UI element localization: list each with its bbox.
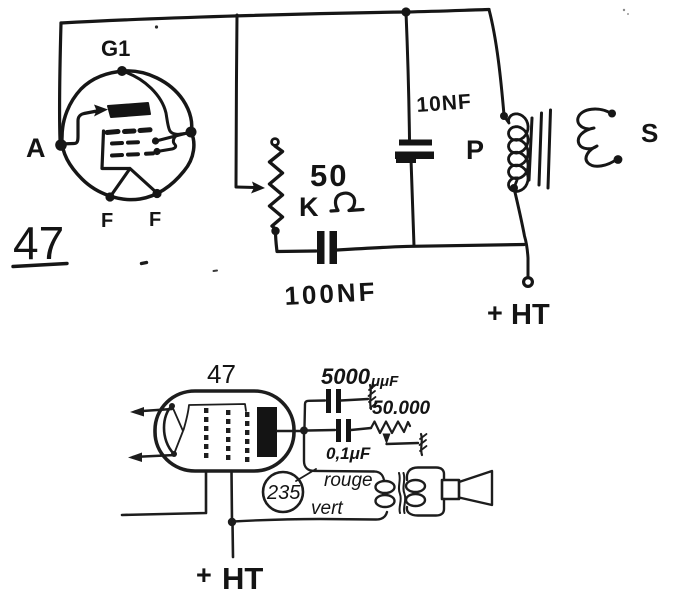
arrow lead top-left bbox=[135, 409, 172, 412]
capacitor C2 100NF right plate bbox=[330, 231, 338, 264]
wire +HT stub down bbox=[231, 522, 234, 557]
callout line 235 bbox=[296, 469, 316, 481]
svg-text:HT: HT bbox=[222, 561, 263, 596]
capacitor C2 100NF left plate bbox=[317, 231, 325, 264]
svg-text:47: 47 bbox=[207, 359, 236, 389]
transformer core line 1 bbox=[529, 118, 532, 180]
grid box outline bbox=[102, 131, 129, 169]
svg-text:μμF: μμF bbox=[370, 373, 399, 390]
capacitor C1 10NF top plate bbox=[399, 140, 432, 146]
grid column 1 dots bbox=[204, 408, 208, 458]
capacitor 0.1uF left plate bbox=[336, 419, 341, 442]
svg-text:G1: G1 bbox=[101, 36, 130, 61]
wire top bus from anode A to transformer bbox=[61, 10, 489, 24]
wire vertical to potentiometer arrow bbox=[236, 15, 237, 186]
svg-text:F: F bbox=[149, 209, 161, 231]
T2 core squiggle right bbox=[403, 473, 405, 513]
wire to 0.1uF bbox=[308, 429, 335, 432]
hatch terminal 1 bbox=[370, 385, 371, 409]
grid internal lead from G1 to side pin bbox=[122, 71, 189, 134]
speaker cone bbox=[459, 471, 492, 505]
wire 10NF branch vertical lower bbox=[411, 159, 414, 246]
grid dashed row3 bbox=[112, 153, 153, 155]
scan speck above tube bbox=[155, 25, 158, 28]
svg-text:235: 235 bbox=[266, 482, 301, 504]
capacitor 0.1uF right plate bbox=[346, 419, 351, 442]
capacitor 5000pF right plate bbox=[336, 389, 341, 413]
wire left vertical A feed bbox=[60, 23, 61, 140]
wire R1 bottom down bbox=[276, 231, 317, 252]
wire top to transformer primary bbox=[489, 10, 504, 116]
anode plate bar (filled) bbox=[108, 103, 150, 117]
transformer core line 3 bbox=[548, 110, 551, 188]
pin F dot right bbox=[152, 189, 161, 198]
wire vert from HT node to transformer bbox=[233, 512, 387, 522]
speaker driver square bbox=[442, 480, 459, 499]
T2 core squiggle left bbox=[399, 473, 401, 513]
grid dashed row2 bbox=[112, 142, 138, 143]
svg-text:50.000: 50.000 bbox=[372, 398, 431, 419]
svg-text:rouge: rouge bbox=[324, 470, 373, 491]
terminal R1 top ring bbox=[272, 139, 279, 146]
label 235 circle bbox=[263, 472, 303, 512]
wire wiper to hatch 2 bbox=[387, 443, 419, 444]
potentiometer R1 50K zigzag bbox=[270, 146, 283, 229]
wire C2 to HT node bbox=[337, 245, 524, 251]
anode lead with arrow from pin A bbox=[60, 111, 97, 144]
wire 5000pF to hatch bbox=[341, 399, 368, 401]
svg-text:A: A bbox=[26, 133, 46, 163]
svg-text:S: S bbox=[641, 118, 658, 148]
wire arrow to potentiometer wiper bbox=[236, 186, 256, 190]
pin side dot bbox=[186, 127, 197, 138]
svg-text:10NF: 10NF bbox=[416, 90, 473, 117]
wire primary bottom to +HT bbox=[514, 188, 528, 277]
svg-text:47: 47 bbox=[13, 217, 64, 269]
T2 secondary loop 1 bbox=[406, 480, 425, 492]
svg-text:+: + bbox=[196, 560, 212, 590]
wire up to 5000pF bbox=[305, 401, 326, 428]
anode output wire bbox=[277, 430, 301, 432]
transformer T2 primary loop 1 bbox=[376, 481, 395, 493]
node R1 bottom dot bbox=[271, 227, 279, 235]
svg-text:+: + bbox=[487, 298, 503, 328]
secondary wire loop to speaker bottom bbox=[407, 499, 444, 516]
svg-text:F: F bbox=[101, 210, 113, 232]
tube V1 envelope circle bbox=[62, 71, 194, 200]
node junction top (10NF tap) bbox=[401, 7, 410, 16]
wire 10NF branch vertical upper bbox=[406, 12, 410, 139]
secondary top terminal dot bbox=[608, 110, 616, 118]
svg-text:100NF: 100NF bbox=[284, 276, 378, 311]
node HT junction dot bbox=[228, 518, 236, 526]
grid G2 dashed row1 bbox=[107, 130, 150, 133]
svg-text:vert: vert bbox=[311, 498, 343, 519]
node primary top dot bbox=[500, 112, 508, 120]
scan speck far right bbox=[623, 9, 625, 11]
filament top dot bbox=[169, 403, 175, 409]
transformer T1 secondary winding bbox=[578, 109, 617, 166]
filament arc bbox=[164, 406, 174, 454]
node anode junction dot bbox=[300, 427, 308, 435]
filament bottom dot bbox=[171, 451, 177, 457]
anode plate rectangle bbox=[257, 407, 277, 457]
secondary wire loop to speaker top bbox=[407, 468, 444, 481]
grid column 3 dots bbox=[245, 412, 249, 462]
svg-text:0,1μF: 0,1μF bbox=[326, 444, 371, 463]
node grid row2 dot bbox=[152, 137, 159, 144]
transformer T1 primary winding P bbox=[504, 114, 528, 192]
pin wire grid1 down and left bbox=[122, 471, 206, 515]
svg-text:P: P bbox=[466, 135, 484, 165]
grid link to row3 dot bbox=[157, 135, 177, 152]
wiper arrow triangle bbox=[383, 434, 391, 445]
capacitor 5000pF left plate bbox=[326, 389, 331, 413]
svg-text:5000: 5000 bbox=[321, 364, 371, 389]
scan speck dash below F bbox=[142, 263, 147, 264]
filament V bbox=[110, 169, 157, 198]
capacitor C1 10NF bottom plate bbox=[395, 152, 434, 160]
pin F dot left bbox=[105, 192, 114, 201]
transformer T2 primary loop 2 bbox=[376, 495, 395, 507]
pin wire grid2 down to HT node bbox=[230, 471, 233, 522]
filament V inner bbox=[172, 406, 183, 454]
secondary bottom terminal dot bbox=[614, 155, 623, 164]
terminal +HT ring bbox=[524, 278, 533, 287]
node primary bottom dot bbox=[510, 184, 518, 192]
resistor 50.000 zigzag bbox=[371, 422, 410, 434]
scan speck right of 47 bbox=[214, 270, 218, 273]
wire rouge from junction to transformer bbox=[304, 434, 374, 472]
svg-text:HT: HT bbox=[511, 299, 550, 331]
T2 secondary loop 2 bbox=[406, 494, 425, 506]
node grid row3 dot bbox=[153, 148, 160, 155]
pin G1 top cap dot bbox=[117, 66, 127, 76]
svg-text:50: 50 bbox=[310, 158, 348, 193]
grid link to row2 dot bbox=[156, 132, 191, 141]
svg-text:K: K bbox=[299, 192, 319, 222]
hatch terminal 2 bbox=[421, 434, 422, 455]
tube V2 envelope (stadium) bbox=[155, 391, 294, 471]
grid column 2 dots bbox=[226, 410, 230, 460]
transformer core line 2 bbox=[539, 113, 542, 185]
pin A dot bbox=[55, 139, 67, 151]
grid tie line bbox=[184, 404, 247, 430]
wire rouge into primary top bbox=[374, 472, 384, 481]
wire 0.1uF to resistor bbox=[351, 428, 371, 430]
arrow lead bottom-left bbox=[133, 455, 175, 457]
